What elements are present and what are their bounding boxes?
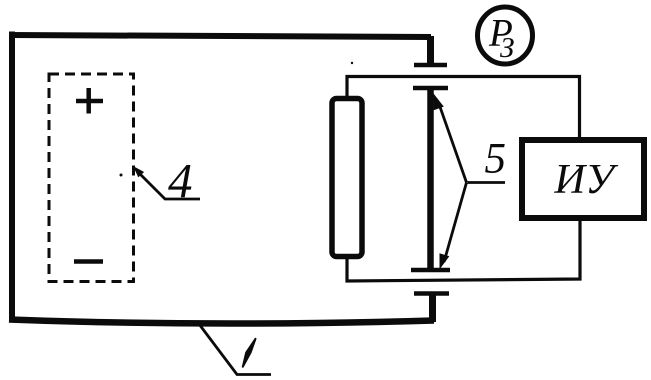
- chamber 1 top wall: [9, 35, 431, 37]
- crystal rod between holder plates: [427, 90, 434, 268]
- svg-text:З: З: [500, 32, 514, 64]
- chamber 1 left wall: [9, 32, 15, 323]
- plus sign: [76, 88, 103, 114]
- top outer plate: [414, 63, 447, 68]
- label P3: [488, 12, 514, 65]
- leader line for 5: [434, 94, 506, 270]
- svg-text:5: 5: [485, 136, 507, 183]
- spark gap P3 circle: [478, 7, 533, 64]
- measuring unit box U: [522, 140, 644, 218]
- bottom signal wire: [347, 220, 580, 281]
- chamber 1 bottom wall: [9, 320, 434, 324]
- leader line for 1: [199, 324, 271, 375]
- top signal wire: [347, 77, 580, 140]
- holder bottom plate 5: [411, 268, 450, 273]
- label 1: [243, 339, 256, 367]
- holder top plate 5: [413, 86, 448, 91]
- speck near dashed box: [120, 174, 123, 177]
- svg-text:ИУ: ИУ: [554, 156, 619, 203]
- svg-text:4: 4: [168, 153, 193, 208]
- electrode plate: [332, 99, 362, 257]
- label IU: [554, 156, 619, 203]
- leader line for 4: [133, 166, 200, 199]
- dashed source outline 4: [49, 74, 134, 282]
- label 4: [168, 153, 193, 208]
- label 5: [485, 136, 507, 183]
- minus sign: [74, 259, 103, 264]
- bottom feed-through stem: [429, 295, 436, 322]
- bottom outer plate: [414, 291, 449, 296]
- top feed-through stem: [427, 36, 434, 63]
- speck above top wire: [351, 62, 353, 64]
